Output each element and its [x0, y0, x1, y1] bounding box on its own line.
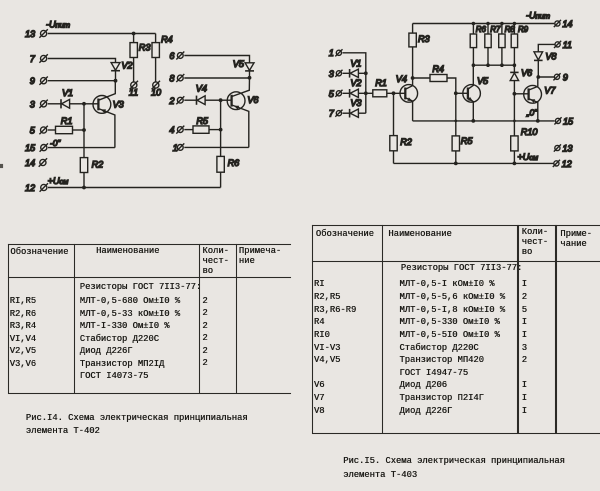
diode V1 (stabistor) — [350, 59, 366, 78]
svg-text:9: 9 — [563, 72, 568, 82]
svg-text:R2: R2 — [400, 137, 412, 147]
wire -Uпит rail (top) — [413, 23, 555, 25]
svg-text:R4: R4 — [432, 64, 444, 74]
right caption — [343, 455, 565, 483]
wire pin3 to V1 — [343, 72, 350, 74]
svg-text:8: 8 — [169, 74, 175, 84]
wire node E to R6 — [220, 100, 222, 156]
wire pin5 to V2 — [343, 92, 350, 94]
svg-text:4: 4 — [169, 125, 174, 135]
svg-text:13: 13 — [25, 29, 36, 39]
wire pin6 to V5 — [184, 56, 249, 63]
wire pin2 to V4 — [184, 99, 196, 101]
node V2/bus/R1 — [364, 91, 368, 95]
svg-text:10: 10 — [151, 87, 162, 97]
svg-text:R2: R2 — [92, 160, 104, 170]
transistor V3 (МП21Д, PNP) — [93, 81, 125, 148]
svg-text:V5: V5 — [233, 59, 245, 69]
wire pin9 to node A — [48, 80, 116, 82]
wire pin13 to R4 (-Uпит rail) — [48, 33, 156, 35]
resistor R4 — [152, 34, 173, 82]
svg-text:V5: V5 — [477, 76, 489, 86]
net +Uсм label — [48, 176, 70, 186]
node V1/bus — [364, 71, 368, 75]
resistor R10 — [511, 127, 539, 163]
node V7 emitter/rail — [536, 119, 540, 123]
node G (R1/R2/V4 base) — [392, 91, 396, 95]
diode V2 — [111, 61, 132, 81]
resistor R1 — [56, 116, 85, 134]
svg-text:5: 5 — [30, 126, 36, 136]
svg-text:V4: V4 — [196, 84, 207, 94]
junction R10 column crossing — [513, 120, 516, 123]
svg-text:6: 6 — [169, 51, 175, 61]
resistor R2 — [390, 93, 412, 163]
svg-text:V1: V1 — [350, 59, 361, 69]
svg-text:V7: V7 — [544, 86, 556, 96]
transistor V5 (МП420, NPN) — [463, 65, 489, 121]
svg-text:11: 11 — [129, 87, 138, 97]
pin 15 — [25, 143, 48, 153]
node H (R3/R4/V4 collector) — [411, 76, 415, 80]
node junction R3 / rail — [132, 32, 136, 36]
resistor R1 — [366, 78, 406, 97]
svg-text:2: 2 — [168, 96, 174, 106]
svg-text:R1: R1 — [375, 78, 387, 88]
svg-text:-Uпит: -Uпит — [526, 11, 550, 21]
svg-text:R9: R9 — [518, 25, 529, 34]
pin 14 (not connected) — [25, 158, 47, 168]
diode V6 (Д206) — [510, 68, 533, 136]
svg-text:11: 11 — [563, 40, 572, 50]
svg-text:9: 9 — [30, 76, 35, 86]
net -Uпит label — [526, 11, 550, 21]
resistor R4 — [413, 64, 456, 94]
svg-text:R1: R1 — [61, 116, 73, 126]
pin 3 — [329, 69, 343, 79]
wire base of V3 — [84, 103, 98, 105]
diode V8 (Д226Г) — [534, 52, 557, 77]
svg-text:R6: R6 — [228, 158, 241, 168]
svg-text:-Uпит: -Uпит — [46, 20, 70, 30]
wire emitter rail (0 net) — [413, 120, 555, 122]
pin 7 — [30, 54, 48, 64]
svg-text:-0”: -0” — [50, 138, 61, 148]
svg-text:„0”: „0” — [526, 107, 538, 117]
node K (V8/pin9/V7 collector) — [536, 75, 540, 79]
resistor R3 — [130, 34, 151, 82]
resistor R6 — [217, 156, 240, 187]
svg-text:3: 3 — [329, 69, 335, 79]
diode V3 (stabistor) — [350, 98, 366, 117]
node V5 emitter/rail — [471, 119, 475, 123]
node B (V1/base/R1 column) — [82, 102, 86, 106]
pin 4 — [169, 125, 184, 135]
net -Uпит label — [46, 20, 70, 30]
wire rail corner down to R4 — [155, 34, 157, 43]
pin 2 — [168, 96, 184, 106]
pin 6 — [169, 51, 184, 61]
wire pin11 to V8 — [538, 44, 555, 51]
pin 5 — [30, 126, 48, 136]
pin 7 — [329, 109, 343, 119]
svg-text:14: 14 — [25, 158, 35, 168]
svg-text:R10: R10 — [521, 127, 539, 137]
svg-text:V3: V3 — [113, 100, 125, 110]
resistor R3 — [409, 24, 431, 79]
pin 9 — [30, 76, 48, 86]
node J (V6/R10/V7 base) — [513, 92, 517, 96]
node R5/+Uсм rail — [454, 162, 458, 166]
svg-text:V1: V1 — [62, 88, 73, 98]
svg-text:V6: V6 — [247, 95, 259, 105]
right table frame — [312, 225, 600, 226]
pin 9 — [553, 72, 567, 82]
resistor R9 — [511, 24, 528, 66]
pin 13 (not connected) — [554, 144, 574, 154]
diode V5 — [233, 59, 254, 78]
left table header — [10, 248, 68, 258]
wire pin15 to V3 emitter — [48, 147, 115, 149]
node A (V2/V3 collector/pin9) — [114, 79, 118, 83]
wire pin3 to V1 — [48, 103, 61, 105]
wire pin8 to node D — [184, 77, 249, 79]
left table body — [80, 283, 201, 293]
wire base of V5 — [456, 92, 468, 94]
wire pin4 to R5 — [184, 129, 193, 131]
resistor R8 — [499, 24, 516, 66]
svg-text:V3: V3 — [350, 98, 362, 108]
svg-text:V2: V2 — [350, 78, 361, 88]
wire collector bus R6-R9 — [473, 65, 514, 72]
pin 5 — [329, 89, 343, 99]
node dots on -Uпит rail — [472, 22, 517, 26]
wire pin1 to input bus — [343, 53, 366, 113]
transistor V4 (МП420, NPN) — [396, 74, 418, 121]
pin 10 — [151, 81, 162, 98]
pin 11 — [554, 40, 572, 50]
svg-text:R4: R4 — [161, 34, 173, 44]
wire node B to node C — [83, 104, 85, 130]
wire +Uсм rail (bottom) — [394, 162, 554, 164]
node D (V5/V6 collector/pin8) — [248, 76, 252, 80]
net „0“ label — [526, 107, 538, 117]
svg-text:12: 12 — [562, 159, 572, 169]
wire base of V7 — [514, 93, 528, 95]
diode V2 (stabistor) — [350, 78, 366, 97]
pin 12 — [553, 159, 572, 169]
junction R5 column crossing — [454, 120, 457, 123]
node E (V4/base/R5 column) — [219, 98, 223, 102]
svg-text:+Uсм: +Uсм — [517, 152, 539, 162]
node dots on collector bus — [472, 63, 517, 67]
pin 14 — [554, 19, 573, 29]
svg-text:R5: R5 — [196, 116, 209, 126]
wire pin5 to R1 — [48, 129, 56, 131]
right table body — [401, 264, 522, 274]
wire pin7 to V3 — [343, 112, 350, 114]
svg-text:V4: V4 — [396, 74, 407, 84]
node R10/+Uсм rail — [513, 162, 517, 166]
diode V1 (stabistor) — [61, 88, 84, 108]
wire pin7 to V2 — [48, 59, 116, 63]
svg-text:R3: R3 — [418, 34, 431, 44]
svg-text:+Uсм: +Uсм — [48, 176, 70, 186]
svg-text:14: 14 — [562, 19, 572, 29]
node R2/+Uсм rail — [82, 186, 86, 190]
wire pin9 to node K — [538, 76, 554, 78]
node F (R5/R6 column) — [219, 128, 223, 132]
svg-text:12: 12 — [25, 183, 35, 193]
scan artifact left edge — [0, 164, 3, 168]
svg-text:R8: R8 — [505, 25, 516, 34]
svg-text:7: 7 — [30, 54, 36, 64]
wire base of V6 — [221, 99, 232, 101]
net +Uсм label — [517, 152, 539, 162]
svg-text:15: 15 — [25, 143, 36, 153]
resistor R6 — [470, 24, 486, 66]
pin 8 — [169, 74, 184, 84]
wire +Uсм rail — [48, 187, 221, 189]
diode V4 (stabistor) — [196, 84, 221, 105]
pin 3 — [30, 99, 48, 109]
svg-text:5: 5 — [329, 89, 335, 99]
right table header — [316, 230, 374, 240]
svg-text:V2: V2 — [121, 61, 132, 71]
pin 1 — [329, 48, 343, 58]
transistor V6 (МП21Д, PNP) — [227, 78, 259, 148]
net -0 label — [50, 138, 61, 148]
left table frame — [8, 244, 291, 245]
svg-text:R7: R7 — [490, 25, 501, 34]
left caption — [26, 412, 248, 439]
node C (R1/R2 column) — [82, 128, 86, 132]
svg-text:15: 15 — [563, 117, 574, 127]
node I (R4/R5/V5 base) — [454, 91, 458, 95]
transistor V7 (П214Г, PNP) — [524, 77, 557, 121]
resistor R5 — [193, 116, 221, 134]
resistor R7 — [485, 24, 501, 66]
wire pin1 to V6 emitter — [184, 146, 249, 148]
svg-text:R5: R5 — [461, 136, 474, 146]
pin 13 — [25, 29, 48, 39]
svg-text:13: 13 — [562, 144, 573, 154]
svg-text:3: 3 — [30, 99, 36, 109]
svg-text:R3: R3 — [139, 43, 152, 53]
resistor R2 — [80, 130, 103, 188]
resistor R5 — [452, 93, 473, 163]
svg-text:V6: V6 — [521, 68, 533, 78]
pin 15 — [554, 117, 574, 127]
svg-text:1: 1 — [329, 48, 334, 58]
svg-text:7: 7 — [329, 109, 335, 119]
pin 11 — [129, 81, 138, 98]
svg-text:V8: V8 — [545, 52, 557, 62]
pin 12 — [25, 183, 48, 193]
pin 1 — [173, 143, 185, 153]
svg-text:R6: R6 — [476, 25, 487, 34]
